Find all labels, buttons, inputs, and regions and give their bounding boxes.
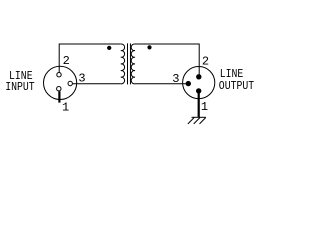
svg-text:1: 1	[201, 100, 208, 114]
svg-text:3: 3	[172, 72, 179, 86]
svg-text:2: 2	[202, 54, 209, 68]
svg-text:OUTPUT: OUTPUT	[219, 80, 255, 93]
svg-text:2: 2	[63, 54, 70, 68]
svg-text:INPUT: INPUT	[5, 81, 35, 94]
svg-text:1: 1	[62, 100, 69, 114]
svg-text:3: 3	[78, 72, 85, 86]
